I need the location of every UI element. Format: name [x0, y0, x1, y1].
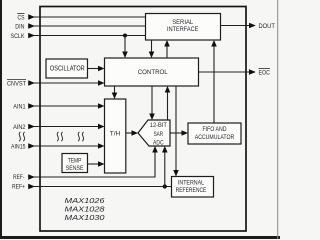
pin arrow AIN2 [28, 124, 35, 130]
arrow REF- into ADC bottom [152, 146, 158, 153]
block INTERNAL REFERENCE [172, 177, 214, 198]
svg-text:MAX1028: MAX1028 [65, 205, 106, 214]
wire REF+ branch up to ADC [162, 146, 168, 187]
svg-text:DIN: DIN [15, 24, 25, 31]
pin arrow DIN [28, 23, 35, 29]
figure frame bottom edge [0, 236, 280, 239]
svg-text:ADC: ADC [153, 140, 164, 147]
svg-text:ACCUMULATOR: ACCUMULATOR [195, 134, 235, 141]
wire SERIAL INTERFACE to CONTROL (down) [149, 40, 155, 58]
wire SERIAL INTERFACE to DOUT [221, 23, 256, 29]
pin label CS with overline [17, 13, 24, 21]
wire OSCILLATOR to CONTROL [88, 66, 105, 72]
continuation squiggles left of border [19, 132, 24, 141]
wire CS input [34, 16, 146, 18]
svg-text:INTERNAL: INTERNAL [178, 180, 204, 187]
svg-text:FIFO AND: FIFO AND [203, 126, 227, 133]
wire T/H to ADC [126, 130, 138, 136]
pin arrow SCLK [28, 33, 35, 39]
wire DIN input [34, 25, 146, 27]
pin arrow CS [28, 14, 35, 20]
pin label EOC with overline [259, 69, 271, 77]
outer device boundary box [40, 7, 246, 232]
pin arrow AIN15 [28, 143, 35, 149]
wire ADC to FIFO [170, 130, 188, 136]
continuation squiggles mid wire group 1 [57, 132, 62, 141]
figure frame right thin edge [277, 0, 278, 239]
wire REF+ input to INTERNAL REFERENCE [34, 186, 172, 188]
wire CONTROL to EOC [199, 69, 256, 75]
block T/H [105, 99, 126, 173]
svg-text:EOC: EOC [259, 70, 271, 77]
wire AIN2 input [34, 126, 99, 128]
svg-text:CONTROL: CONTROL [138, 69, 168, 76]
svg-text:OSCILLATOR: OSCILLATOR [50, 66, 85, 73]
svg-text:TEMP: TEMP [68, 158, 82, 165]
pin arrow CNVST into CONTROL [98, 80, 105, 86]
wire FIFO to SERIAL INTERFACE (up) [211, 40, 217, 123]
wire ADC to CONTROL (up) [165, 86, 171, 120]
svg-text:SAR: SAR [154, 131, 164, 138]
svg-text:AIN2: AIN2 [13, 124, 26, 131]
arrow AIN2 into T/H [98, 124, 105, 130]
arrow AIN1 into T/H [98, 103, 105, 109]
wire TEMP SENSE to T/H [88, 161, 105, 167]
junction dot REF+ [163, 184, 167, 188]
svg-text:REFERENCE: REFERENCE [176, 187, 207, 194]
svg-text:T/H: T/H [110, 131, 121, 138]
svg-text:CS: CS [18, 15, 25, 22]
pin arrow REF+ [28, 184, 35, 190]
pin arrow CNVST [28, 80, 35, 86]
wire REF- input with elbow up to ADC [34, 152, 155, 178]
wire CONTROL to SERIAL INTERFACE (up) [164, 40, 170, 58]
block OSCILLATOR [46, 59, 88, 78]
svg-text:CNVST: CNVST [7, 81, 26, 88]
block SERIAL INTERFACE [146, 14, 221, 41]
wire CONTROL to T/H [112, 86, 118, 99]
block CONTROL [105, 58, 199, 86]
svg-text:SCLK: SCLK [11, 33, 26, 40]
svg-text:SERIAL: SERIAL [172, 19, 193, 26]
continuation squiggles mid wire group 2 [78, 132, 83, 141]
svg-text:12-BIT: 12-BIT [150, 122, 167, 129]
wire CONTROL to ADC (down) [149, 86, 155, 120]
wire SCLK branch to CONTROL [122, 36, 128, 59]
wire SCLK input [34, 35, 146, 37]
svg-text:MAX1030: MAX1030 [65, 213, 106, 222]
wire AIN15 input [34, 145, 99, 147]
device names MAX1026 MAX1028 MAX1030 [65, 196, 106, 222]
svg-text:AIN1: AIN1 [13, 104, 26, 111]
svg-text:INTERFACE: INTERFACE [167, 26, 199, 33]
svg-text:AIN15: AIN15 [11, 144, 26, 151]
svg-text:MAX1026: MAX1026 [65, 196, 106, 205]
svg-text:REF+: REF+ [12, 184, 25, 191]
arrow AIN15 into T/H [98, 143, 105, 149]
block TEMP SENSE [62, 154, 88, 173]
block FIFO AND ACCUMULATOR [188, 123, 241, 144]
wire CONTROL to INTERNAL REFERENCE (down) [173, 86, 179, 177]
wire AIN1 input [34, 105, 99, 107]
pin label CNVST with overline [7, 79, 26, 87]
wire CNVST input [34, 82, 99, 84]
svg-text:SENSE: SENSE [66, 165, 84, 172]
junction dot SCLK branch [123, 34, 127, 38]
pin arrow REF- [28, 174, 35, 180]
svg-text:REF-: REF- [13, 174, 24, 181]
pin arrow AIN1 [28, 103, 35, 109]
block 12-BIT SAR ADC (pointed pentagon) [138, 120, 170, 147]
figure frame left edge [0, 0, 2, 239]
svg-text:DOUT: DOUT [259, 23, 275, 30]
